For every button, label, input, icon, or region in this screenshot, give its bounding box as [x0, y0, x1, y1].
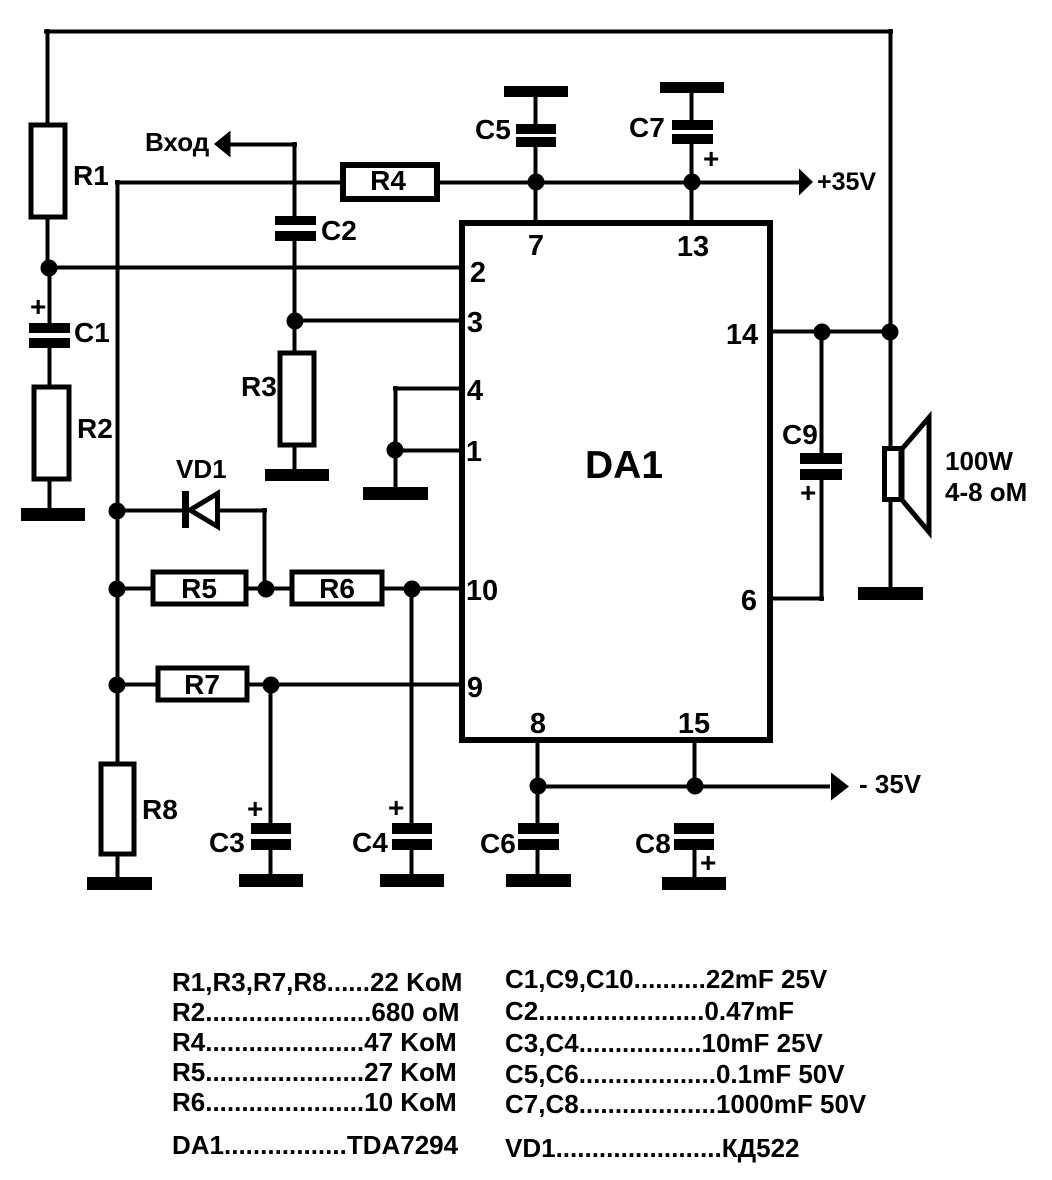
svg-text:DA1: DA1 [585, 444, 663, 487]
capacitor C1 [29, 291, 110, 348]
node -35V arrow [831, 769, 922, 801]
resistor R8 [101, 764, 178, 854]
wire C7 to rail / pin13 stub [690, 144, 694, 223]
svg-text:R3: R3 [241, 371, 277, 402]
wire C1 stub [48, 268, 52, 323]
wire y182 to R4 [115, 181, 343, 185]
svg-text:R2: R2 [77, 413, 113, 444]
svg-text:4-8 oM: 4-8 oM [945, 477, 1027, 507]
wire left vertical to R1 [46, 29, 50, 124]
wire C5 top stub [534, 95, 538, 126]
capacitor C5 [475, 114, 556, 147]
wire R7-pin9 [247, 683, 462, 687]
svg-text:3: 3 [467, 307, 483, 339]
svg-text:4: 4 [467, 375, 483, 407]
resistor R4 [343, 165, 437, 199]
svg-text:R5......................27 KoM: R5......................27 KoM [172, 1057, 457, 1087]
wire C6 stub [536, 786, 540, 823]
node right rail junction [882, 324, 899, 341]
svg-text:C5,C6...................0.1mF: C5,C6...................0.1mF 50V [505, 1059, 845, 1089]
svg-text:+: + [700, 847, 716, 878]
svg-text:10: 10 [466, 575, 498, 607]
resistor R5 [153, 572, 246, 604]
capacitor C2 [275, 215, 357, 246]
svg-text:R6......................10 KoM: R6......................10 KoM [172, 1087, 457, 1117]
svg-text:+: + [703, 143, 719, 174]
wire pin15 stub [693, 740, 697, 789]
wire C6-ground [536, 850, 540, 874]
diode VD1 [176, 454, 227, 528]
svg-text:13: 13 [677, 231, 709, 263]
svg-text:Вход: Вход [145, 127, 210, 157]
node diode row junction [109, 503, 126, 520]
svg-text:DA1.................TDA7294: DA1.................TDA7294 [172, 1130, 459, 1160]
ground under C8 [662, 877, 726, 890]
node pin8 junction [530, 778, 547, 795]
svg-text:R4......................47 KoM: R4......................47 KoM [172, 1027, 457, 1057]
wire right rail vertical [889, 29, 893, 448]
svg-text:C1,C9,C10..........22mF 25V: C1,C9,C10..........22mF 25V [505, 964, 828, 994]
svg-text:C2: C2 [321, 215, 357, 246]
ground under C4 [380, 874, 444, 887]
svg-text:R1: R1 [73, 160, 109, 191]
svg-text:R2.......................680 o: R2.......................680 oM [172, 997, 460, 1027]
wire R1 bottom [46, 218, 50, 270]
wire pin14 horizontal [770, 330, 893, 334]
ground under pin1 [363, 487, 428, 500]
wire R5 left [115, 587, 153, 591]
svg-text:14: 14 [726, 319, 758, 351]
node R1/C1/pin2 junction [41, 260, 58, 277]
svg-text:100W: 100W [945, 446, 1013, 476]
svg-text:C8: C8 [635, 828, 671, 859]
node +35V arrow [799, 168, 876, 196]
svg-text:C1: C1 [74, 317, 110, 348]
capacitor C7 [629, 112, 719, 174]
svg-text:+: + [30, 291, 46, 322]
capacitor C6 [480, 823, 559, 859]
svg-text:R1,R3,R7,R8......22 KoM: R1,R3,R7,R8......22 KoM [172, 967, 462, 997]
wire C9 vertical top [820, 332, 824, 453]
node R7 output junction [263, 677, 280, 694]
svg-text:7: 7 [528, 230, 544, 262]
svg-text:C5: C5 [475, 114, 511, 145]
wire pin6 horizontal [770, 597, 824, 601]
wire R5-R6 [246, 587, 292, 591]
svg-text:R6: R6 [319, 573, 355, 604]
wire C4-ground [410, 850, 414, 874]
wire top rail [44, 30, 893, 34]
ground under C6 [506, 874, 571, 887]
node input arrow [145, 127, 231, 158]
wire C2 top vertical [293, 142, 297, 218]
ground under R8 [87, 877, 152, 890]
svg-text:1: 1 [466, 436, 482, 468]
wire C1-R2 [48, 348, 52, 387]
wire -35V rail [535, 785, 830, 789]
svg-text:8: 8 [530, 708, 546, 740]
node R5 left junction [109, 581, 126, 598]
wire x271 vertical to C3 [269, 685, 273, 823]
wire C2 bottom vertical [293, 241, 297, 353]
capacitor C9 [782, 419, 842, 508]
wire pin4 horizontal [393, 387, 462, 391]
ground under R3 [265, 469, 329, 481]
svg-text:C4: C4 [352, 827, 388, 858]
wire R6-pin10 [382, 587, 462, 591]
wire C9 vertical bottom [820, 480, 824, 601]
svg-text:+: + [800, 477, 816, 508]
svg-text:R4: R4 [370, 165, 406, 196]
svg-text:- 35V: - 35V [859, 769, 922, 799]
node C9 top junction [814, 324, 831, 341]
svg-text:VD1.......................КД52: VD1.......................КД522 [505, 1133, 800, 1163]
speaker LS1 [885, 418, 1028, 533]
node C7 rail junction [684, 174, 701, 191]
wire R3-ground [293, 445, 297, 471]
ground above C7 [660, 82, 724, 93]
wire pin3 horizontal [292, 319, 460, 323]
node pin1 junction [387, 442, 404, 459]
svg-text:C7: C7 [629, 112, 665, 143]
wire x412 vertical to C4 [410, 589, 414, 823]
wire R8-ground [116, 854, 120, 877]
node pin3 junction [287, 313, 304, 330]
resistor R6 [292, 572, 382, 604]
wire C8-ground [693, 850, 697, 877]
svg-text:C6: C6 [480, 828, 516, 859]
capacitor C8 [635, 823, 716, 878]
resistor R1 [31, 125, 65, 217]
svg-text:C3,C4.................10mF 25V: C3,C4.................10mF 25V [505, 1028, 824, 1058]
wire feedback vertical x117 [116, 180, 120, 764]
capacitor C4 [352, 792, 432, 858]
capacitor C3 [209, 793, 291, 858]
wire diode down vertical [263, 508, 267, 590]
node R5-R6 junction [258, 581, 275, 598]
svg-text:C7,C8...................1000mF: C7,C8...................1000mF 50V [505, 1089, 867, 1119]
svg-text:R8: R8 [142, 794, 178, 825]
wire R7 left [115, 683, 158, 687]
node R7 left junction [109, 677, 126, 694]
resistor R2 [34, 387, 113, 479]
wire C7 top stub [690, 91, 694, 122]
wire diode row left [115, 509, 185, 513]
svg-text:2: 2 [470, 257, 486, 289]
svg-text:6: 6 [741, 585, 757, 617]
svg-text:VD1: VD1 [176, 454, 227, 484]
svg-text:+: + [388, 792, 404, 823]
svg-text:9: 9 [467, 672, 483, 704]
wire +35V rail [440, 181, 800, 185]
wire pin8 stub [536, 740, 540, 789]
node C5 rail junction [528, 174, 545, 191]
op-amp U1 DA1 box [462, 223, 770, 740]
wire R2-ground [48, 479, 52, 510]
wire speaker-ground [889, 500, 893, 587]
ground under speaker [858, 587, 923, 600]
wire C3-ground [269, 850, 273, 874]
wire pin2 horizontal [47, 266, 460, 270]
svg-text:C9: C9 [782, 419, 818, 450]
wire C5 to rail / pin7 stub [534, 147, 538, 223]
wire pin1 horizontal [393, 449, 462, 453]
svg-text:R5: R5 [181, 573, 217, 604]
wire pin1-ground stub [394, 450, 398, 487]
ground above C5 [504, 86, 568, 97]
ground under C3 [239, 874, 303, 887]
wire input horizontal [228, 143, 297, 147]
ground under R2 [21, 508, 85, 521]
svg-text:C2.......................0.47m: C2.......................0.47mF [505, 996, 794, 1026]
resistor R7 [158, 668, 247, 700]
svg-text:C3: C3 [209, 827, 245, 858]
node pin15 junction [687, 778, 704, 795]
svg-text:+: + [247, 793, 263, 824]
wire pin4-pin1 vertical [394, 386, 398, 450]
node R6 output junction [404, 581, 421, 598]
svg-text:+35V: +35V [817, 168, 876, 196]
wire diode right [219, 509, 267, 513]
svg-text:15: 15 [678, 708, 710, 740]
svg-text:R7: R7 [184, 669, 220, 700]
resistor R3 [241, 353, 314, 445]
